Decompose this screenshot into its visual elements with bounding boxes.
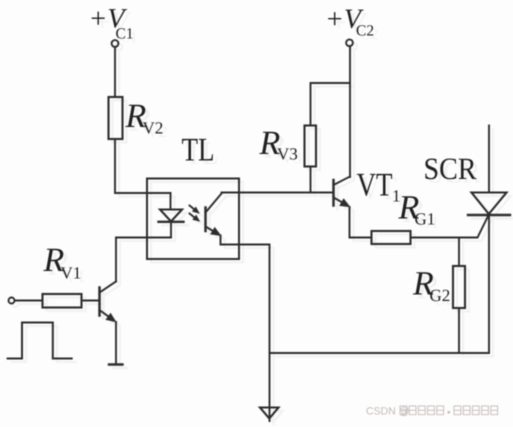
wire RV1 to Q1 base <box>82 300 100 302</box>
resistor RG1 <box>372 231 411 244</box>
label RV2 <box>125 105 145 127</box>
optocoupler U1 box <box>147 179 239 260</box>
phototransistor (opto detector) <box>206 194 222 237</box>
wire Q1 collector to LED cathode <box>116 238 171 282</box>
label TL <box>182 139 213 161</box>
wire RG2 to cathode rail <box>458 308 460 353</box>
SCR thyristor <box>468 126 510 354</box>
label VT1 <box>357 174 392 196</box>
light arrows <box>190 206 201 222</box>
wire opto collector / VT1 base (node B) <box>222 192 334 194</box>
wire VC2 branch to RV3 <box>311 83 351 126</box>
label RG2 <box>413 272 433 294</box>
node +VC2 terminal <box>346 39 353 46</box>
node +VC1 terminal <box>112 40 119 47</box>
wire gate node to RG2 <box>458 238 460 267</box>
wire input to RV1 <box>15 300 43 302</box>
pulse waveform <box>8 323 72 359</box>
label SCR <box>425 158 476 179</box>
wire Q1 emitter <box>115 322 117 364</box>
wire RV2 to LED anode <box>115 139 171 193</box>
resistor RV1 <box>43 294 82 308</box>
wire opto emitter to ground rail <box>221 236 270 354</box>
Q1 emitter ground bar <box>109 363 123 365</box>
ground rail <box>270 352 490 354</box>
transistor VT1 <box>334 177 351 208</box>
watermark CSDN <box>367 406 498 416</box>
label +VC1 <box>92 9 128 28</box>
LED (opto emitter diode) <box>159 193 184 238</box>
label RV3 <box>259 132 279 154</box>
resistor RG2 <box>453 266 465 308</box>
label +VC2 <box>328 10 364 29</box>
wire VC1 terminal to RV2 <box>114 47 116 97</box>
label RG1 <box>398 196 418 218</box>
wire RV3 to node B <box>310 167 312 193</box>
wire VC2 to VT1 collector <box>349 47 351 178</box>
resistor RV3 <box>305 126 317 167</box>
wire RG1 to SCR gate <box>411 215 489 238</box>
input terminal <box>9 298 15 304</box>
transistor Q1 <box>100 282 117 323</box>
wire VT1 emitter to RG1 <box>350 207 372 238</box>
resistor RV2 <box>109 97 123 139</box>
ground symbol <box>260 353 279 421</box>
label RV1 <box>43 249 63 271</box>
